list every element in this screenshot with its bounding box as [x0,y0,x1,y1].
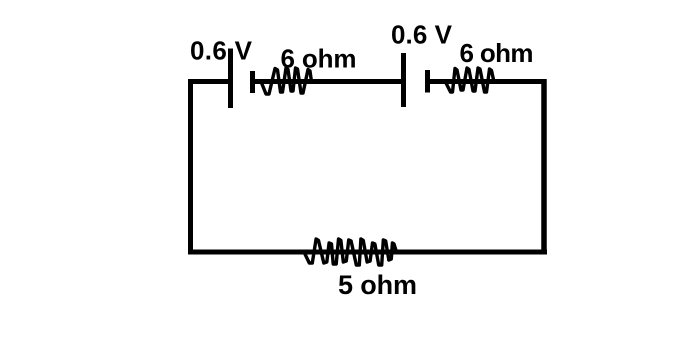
battery B1 short plate [250,71,255,93]
svg-text:6 ohm: 6 ohm [281,44,357,74]
wire top-left segment [188,79,231,84]
svg-text:6 ohm: 6 ohm [460,38,534,68]
resistor R3 5 ohm squiggle [304,239,397,265]
resistor R2 6 ohm squiggle [446,68,495,92]
battery B2 long plate [401,53,406,107]
svg-text:0.6 V: 0.6 V [190,36,253,66]
wire right vertical [541,79,547,255]
svg-text:5 ohm: 5 ohm [338,270,417,300]
wire bottom [188,250,547,255]
wire top-right segment [428,79,547,84]
battery B1 long plate [228,49,233,109]
wire left vertical [188,79,193,255]
svg-text:0.6 V: 0.6 V [391,20,453,50]
wire top-middle segment [253,79,404,84]
battery B2 short plate [425,70,430,93]
resistor R1 6 ohm squiggle [261,68,312,94]
